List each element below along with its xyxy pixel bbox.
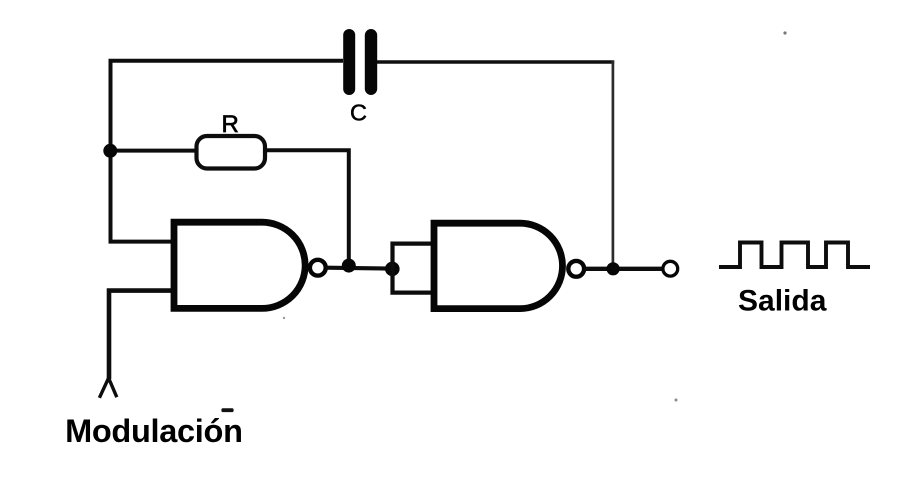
scan speck 2 [675,399,678,402]
wire: node A to resistor [111,149,199,153]
stray dash mark above label [221,408,233,412]
wire: U1 output to U2 input node [326,266,392,271]
NAND gate U2 body [434,223,563,308]
node A junction dot [103,144,117,158]
svg-text:Modulación: Modulación [65,413,243,449]
capacitor C right plate [365,29,377,95]
wire: feedback vertical down to output node [612,61,615,267]
wire: gate1 lower input with down lead [109,291,171,379]
scan speck 1 [783,31,786,34]
node B junction dot [342,259,356,273]
NAND gate U1 body [174,222,305,308]
op bubble of U2 [568,261,584,277]
scan speck 3 [283,317,285,319]
resistor R body [197,136,266,169]
wire: top feedback right segment from capacitor to corner [377,60,614,64]
svg-text:C: C [350,100,367,126]
wire: modulation fork right leg [109,378,117,397]
svg-text:R: R [222,111,239,138]
capacitor C left plate [343,29,355,95]
node C junction dot (U2 input tie) [385,262,400,277]
square wave output symbol [719,243,870,268]
op bubble of U1 [310,260,326,276]
wire: U2 output to terminal [585,267,663,271]
wire: U2 tied input loop [393,244,435,293]
wire: resistor to node B (right then down) [265,150,349,264]
svg-text:Salida: Salida [738,285,827,318]
wire: modulation fork left leg [99,378,108,398]
output terminal circle [663,261,678,276]
node D junction dot (feedback tap) [607,262,620,275]
wire: top feedback left segment (node A vertical + top horizontal to capacitor) [111,61,344,242]
